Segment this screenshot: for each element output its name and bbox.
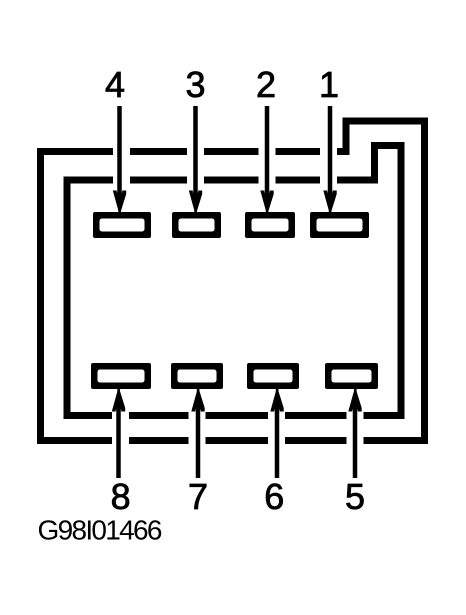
arrow for pin 2 bbox=[260, 106, 273, 215]
connector inner shell bbox=[67, 146, 401, 416]
pin 1 terminal bbox=[310, 212, 369, 238]
connector outer shell J1 bbox=[41, 121, 425, 441]
svg-text:5: 5 bbox=[345, 476, 365, 517]
pin 6 terminal bbox=[247, 363, 299, 389]
arrow for pin 3 bbox=[189, 106, 202, 215]
wire halo arrow 5 bbox=[347, 392, 364, 480]
arrow for pin 6 bbox=[270, 388, 283, 479]
arrow for pin 1 bbox=[323, 106, 336, 215]
wire halo arrow 7 bbox=[189, 392, 206, 480]
svg-text:4: 4 bbox=[105, 64, 125, 105]
pin 2 terminal bbox=[245, 212, 295, 238]
svg-text:7: 7 bbox=[188, 476, 208, 517]
arrow for pin 5 bbox=[348, 388, 361, 479]
wire halo arrow 1 bbox=[320, 104, 337, 210]
arrow for pin 8 bbox=[112, 388, 125, 479]
svg-text:2: 2 bbox=[256, 64, 276, 105]
svg-text:G98I01466: G98I01466 bbox=[38, 515, 162, 546]
arrow for pin 7 bbox=[191, 388, 204, 479]
arrow for pin 4 bbox=[113, 106, 126, 215]
pin 5 terminal bbox=[325, 363, 378, 389]
pin 4 terminal bbox=[93, 212, 151, 238]
svg-text:1: 1 bbox=[319, 64, 339, 105]
pin 8 terminal bbox=[91, 363, 151, 389]
svg-text:3: 3 bbox=[185, 64, 205, 105]
pin 3 terminal bbox=[172, 212, 221, 238]
wire halo arrow 6 bbox=[268, 392, 285, 480]
svg-text:6: 6 bbox=[264, 476, 284, 517]
svg-text:8: 8 bbox=[111, 476, 131, 517]
wire halo arrow 3 bbox=[187, 104, 204, 210]
wire halo arrow 2 bbox=[259, 104, 276, 210]
wire halo arrow 8 bbox=[112, 392, 129, 480]
pin 7 terminal bbox=[171, 363, 223, 389]
wire halo arrow 4 bbox=[113, 104, 130, 210]
